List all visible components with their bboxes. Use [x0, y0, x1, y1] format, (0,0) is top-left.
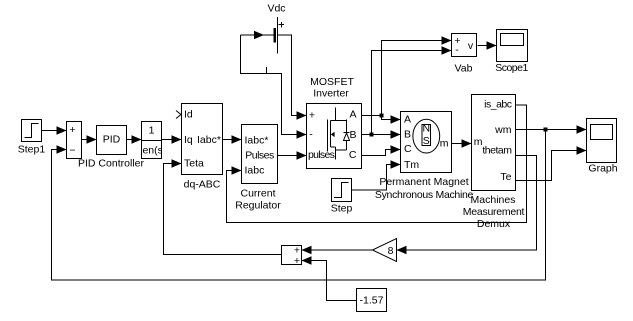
svg-text:Synchronous Machine: Synchronous Machine — [375, 189, 474, 201]
svg-text:B: B — [404, 128, 411, 140]
svg-text:1: 1 — [149, 125, 155, 137]
svg-text:+: + — [309, 109, 315, 121]
svg-text:Vdc: Vdc — [267, 3, 285, 15]
svg-text:MOSFET: MOSFET — [310, 76, 354, 88]
svg-text:A: A — [404, 114, 411, 126]
svg-text:Current: Current — [240, 187, 275, 199]
svg-text:m: m — [440, 137, 449, 149]
svg-text:pulses: pulses — [308, 149, 335, 161]
svg-text:8: 8 — [388, 245, 394, 257]
svg-text:+: + — [69, 124, 75, 136]
svg-text:Iabc: Iabc — [245, 164, 265, 176]
svg-text:Machines: Machines — [471, 194, 516, 206]
svg-text:Iabc*: Iabc* — [245, 135, 269, 147]
svg-text:Demux: Demux — [477, 218, 511, 230]
svg-text:Iq: Iq — [184, 134, 193, 146]
svg-text:Inverter: Inverter — [313, 88, 349, 100]
svg-text:PID: PID — [103, 133, 121, 145]
svg-text:Teta: Teta — [184, 158, 204, 170]
svg-text:C: C — [404, 143, 412, 155]
svg-text:Te: Te — [500, 171, 511, 183]
svg-text:N: N — [423, 122, 431, 134]
svg-text:Vab: Vab — [455, 62, 473, 74]
svg-text:A: A — [349, 109, 356, 121]
svg-text:-: - — [455, 44, 459, 56]
svg-text:B: B — [349, 129, 356, 141]
svg-text:Step: Step — [331, 202, 353, 214]
svg-text:Measurement: Measurement — [463, 206, 525, 218]
svg-text:-: - — [309, 129, 313, 141]
svg-text:v: v — [468, 40, 474, 52]
svg-text:Scope1: Scope1 — [495, 62, 528, 74]
svg-text:thetam: thetam — [482, 144, 512, 156]
svg-text:Tm: Tm — [404, 159, 419, 171]
svg-text:PID Controller: PID Controller — [78, 157, 144, 169]
svg-text:-1.57: -1.57 — [360, 294, 384, 306]
svg-text:Pulses: Pulses — [245, 149, 274, 161]
svg-text:Step1: Step1 — [18, 144, 46, 156]
svg-text:−: − — [69, 144, 75, 156]
svg-text:Regulator: Regulator — [235, 199, 281, 211]
svg-text:Iabc*: Iabc* — [197, 134, 221, 146]
svg-text:is_abc: is_abc — [484, 99, 512, 111]
svg-text:C: C — [349, 149, 357, 161]
svg-text:Graph: Graph — [588, 162, 617, 174]
svg-text:S: S — [423, 135, 430, 147]
svg-text:+: + — [294, 255, 300, 267]
svg-text:Id: Id — [184, 108, 193, 120]
svg-text:dq-ABC: dq-ABC — [184, 178, 221, 190]
svg-text:Permanent Magnet: Permanent Magnet — [379, 176, 468, 188]
svg-text:wm: wm — [494, 124, 512, 136]
